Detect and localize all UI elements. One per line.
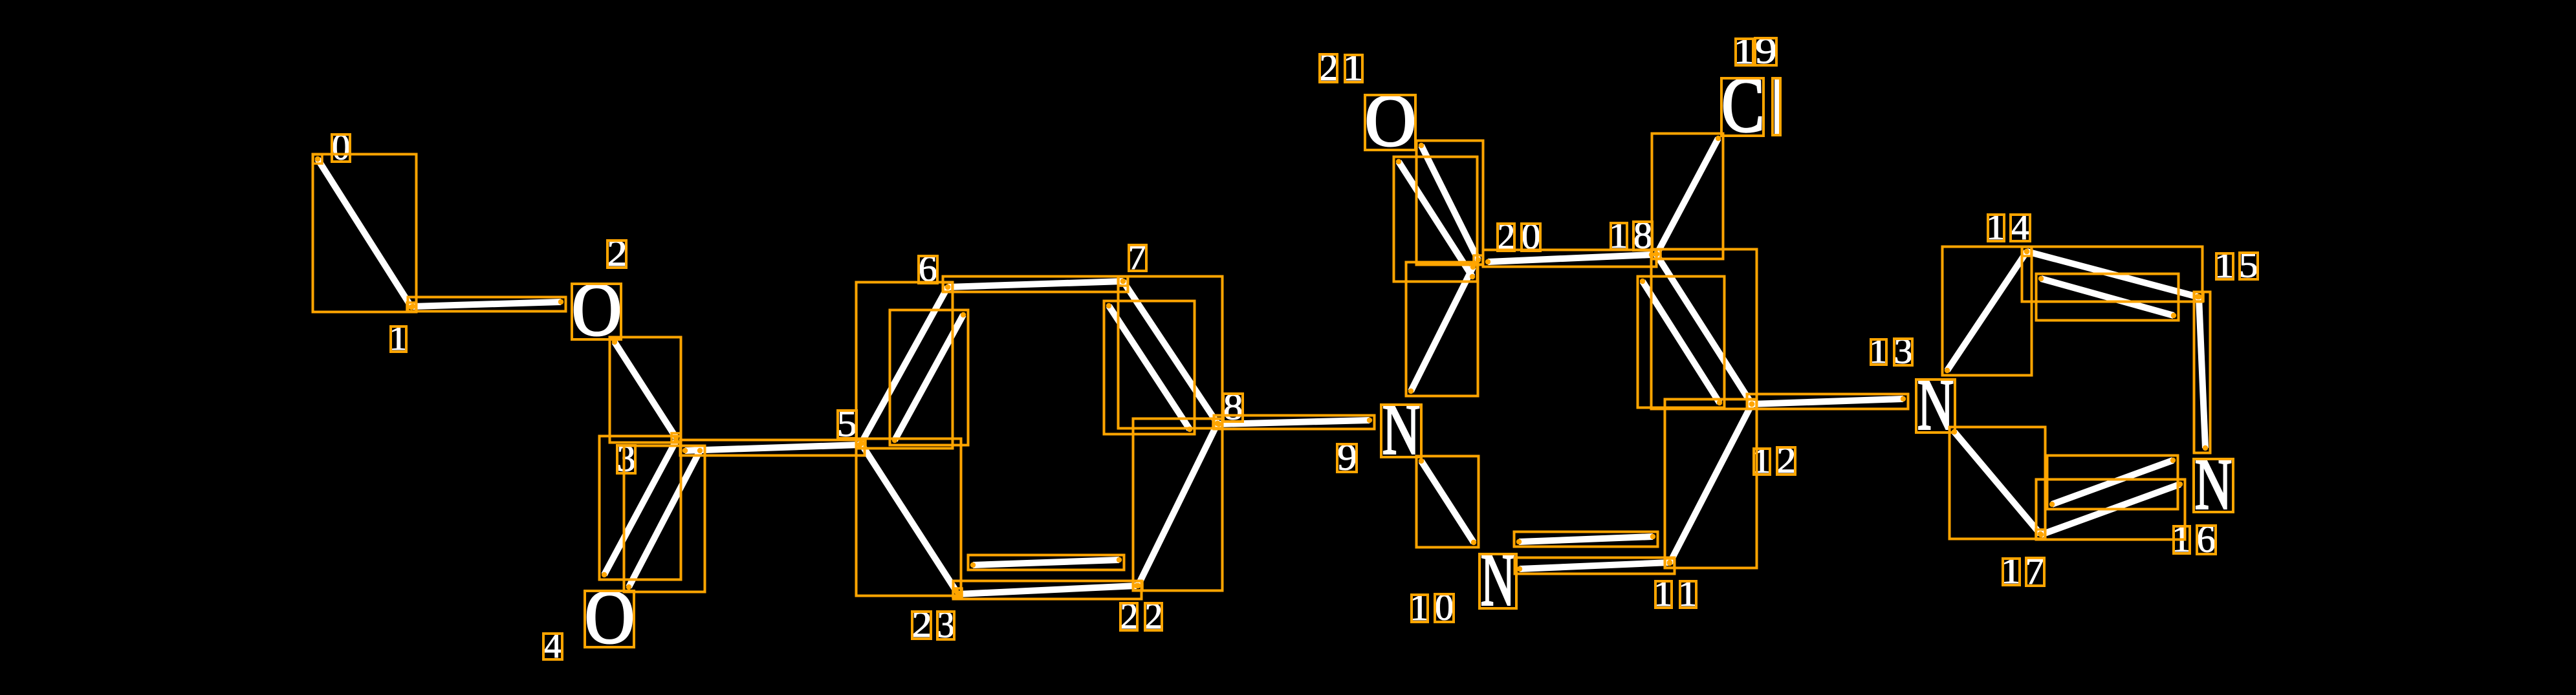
box label 4 bbox=[543, 634, 562, 659]
box bond 12-18 inner bbox=[1638, 277, 1725, 408]
box bond 13-14 bbox=[1943, 247, 2032, 376]
node atom 18 bbox=[1652, 250, 1661, 259]
box label 1 bbox=[1871, 339, 1886, 365]
wire bond 5-6 inner bbox=[895, 315, 963, 440]
wire bond 12-18 bbox=[1656, 254, 1752, 404]
box label 3 bbox=[937, 612, 954, 639]
box bond 12-13 bbox=[1747, 394, 1908, 409]
wire bond 15-16 bbox=[2199, 297, 2205, 448]
wire bond 6-7 bbox=[948, 281, 1123, 287]
box bond 3-4 line b bbox=[624, 446, 705, 592]
node atom 7 bbox=[1119, 277, 1128, 286]
box bond 13-17 bbox=[1950, 427, 2046, 539]
box label 0 bbox=[1435, 594, 1454, 622]
box bond 3-5 bbox=[681, 440, 865, 456]
wire bond 5-23 bbox=[861, 444, 956, 591]
box bond 1-2 bbox=[408, 297, 566, 312]
wire bond 8-9 bbox=[1219, 420, 1370, 424]
box bond 8-22 bbox=[1133, 419, 1223, 591]
wire bond 5-6 bbox=[861, 287, 948, 444]
box bond 22-23 inner bbox=[968, 555, 1124, 570]
wire bond 16-17 inner bbox=[2052, 460, 2173, 504]
box bond 6-7 bbox=[943, 277, 1128, 292]
box bond 10-11 bbox=[1515, 558, 1675, 574]
box bond 7-8 inner bbox=[1104, 301, 1195, 434]
wire bond 12-18 inner bbox=[1643, 281, 1719, 403]
box atom 16 bbox=[2194, 459, 2233, 512]
node atom 8 bbox=[1213, 419, 1222, 428]
box bond 10-11 inner bbox=[1514, 532, 1658, 547]
box bond 20-21 line a bbox=[1417, 141, 1483, 265]
wire bond 10-11 inner bbox=[1519, 537, 1653, 542]
box label 2 bbox=[912, 612, 931, 639]
box label 6 bbox=[2197, 526, 2216, 554]
wire bond 16-17 bbox=[2041, 484, 2180, 535]
box bond 9-20 bbox=[1406, 262, 1478, 396]
box label 2 bbox=[1498, 224, 1514, 251]
box label 8 bbox=[1223, 394, 1243, 422]
box label 1 bbox=[1655, 581, 1672, 608]
node atom 12 bbox=[1747, 400, 1756, 409]
wire bond 14-15 bbox=[2027, 251, 2198, 297]
box bond 15-16 bbox=[2194, 292, 2210, 453]
box bond 16-17 inner bbox=[2047, 456, 2178, 509]
box label 2 bbox=[1145, 603, 1162, 630]
box bond 3-4 line a bbox=[600, 436, 681, 580]
box bond 22-23 bbox=[954, 581, 1142, 599]
wire bond 1-2 bbox=[413, 302, 561, 306]
box label 3 bbox=[1894, 339, 1912, 365]
box bond 0-1 bbox=[313, 155, 417, 312]
node atom 1 bbox=[407, 303, 416, 312]
box label 8 bbox=[1633, 222, 1652, 250]
wire bond 14-15 inner bbox=[2041, 279, 2174, 315]
box bond 18-20 bbox=[1483, 250, 1657, 267]
wire bond 9-20 bbox=[1411, 267, 1473, 391]
node atom 3 bbox=[671, 433, 681, 442]
box label 4 bbox=[2011, 215, 2030, 241]
wire bond 10-11 bbox=[1520, 562, 1670, 569]
box atom 19 part bbox=[1773, 78, 1780, 135]
box label 7 bbox=[2026, 558, 2044, 586]
box label 2 bbox=[607, 241, 626, 268]
box label 1 bbox=[1988, 215, 2004, 241]
box label 1 bbox=[1345, 55, 1362, 82]
box bond 5-23 bbox=[857, 439, 961, 596]
box label 3 bbox=[617, 445, 635, 473]
box bond 7-8 bbox=[1119, 277, 1223, 429]
box atom 10 bbox=[1479, 554, 1516, 608]
box label 5 bbox=[838, 411, 857, 438]
wire bond 0-1 bbox=[318, 159, 411, 307]
node atom 11 bbox=[1665, 559, 1674, 568]
node atom 17 bbox=[2036, 529, 2045, 539]
box bond 8-9 bbox=[1214, 416, 1375, 429]
wire bond 13-17 bbox=[1954, 432, 2040, 534]
wire bond 20-21 line a bbox=[1421, 145, 1478, 260]
wire bond 22-23 inner bbox=[973, 560, 1119, 565]
box label 7 bbox=[1129, 245, 1146, 271]
box label 1 bbox=[1680, 581, 1696, 608]
box bond 5-6 bbox=[857, 283, 953, 449]
box label 1 bbox=[1736, 39, 1753, 65]
box bond 2-3 bbox=[610, 337, 681, 443]
box label 0 bbox=[332, 134, 350, 162]
node atom 14 bbox=[2022, 247, 2031, 256]
wire bond 7-8 inner bbox=[1109, 306, 1190, 429]
box label 2 bbox=[1120, 603, 1137, 630]
node atom 6 bbox=[943, 283, 952, 292]
wire bond 2-3 bbox=[615, 342, 676, 438]
box bond 14-15 inner bbox=[2036, 274, 2179, 321]
node atom 23 bbox=[953, 588, 962, 597]
box bond 18-19 bbox=[1652, 134, 1723, 259]
wire bond 9-10 bbox=[1421, 461, 1474, 542]
wire bond 20-21 line b bbox=[1399, 162, 1472, 277]
box bond 16-17 bbox=[2036, 480, 2185, 540]
box bond 11-12 bbox=[1665, 400, 1757, 568]
wire bond 13-14 bbox=[1947, 251, 2027, 370]
box label 1 bbox=[2174, 526, 2190, 553]
box label 1 bbox=[1412, 595, 1428, 622]
box label 0 bbox=[1522, 224, 1540, 251]
box label 1 bbox=[391, 326, 406, 352]
wire bond 3-4 line b bbox=[629, 451, 700, 587]
box label 6 bbox=[919, 256, 937, 283]
wire bond 7-8 bbox=[1123, 281, 1217, 423]
box label 2 bbox=[1777, 447, 1795, 475]
node atom 5 bbox=[857, 439, 866, 448]
box label 9 bbox=[1337, 444, 1357, 472]
box label 1 bbox=[1611, 223, 1627, 250]
box label 9 bbox=[1755, 38, 1776, 65]
box bond 20-21 line b bbox=[1394, 157, 1478, 282]
box atom 21 bbox=[1365, 95, 1415, 150]
wire bond 18-19 bbox=[1657, 138, 1718, 254]
wire bond 3-4 line a bbox=[604, 441, 676, 575]
box bond 9-10 bbox=[1417, 456, 1479, 548]
box atom 13 bbox=[1916, 380, 1955, 433]
box atom 2 bbox=[572, 284, 621, 339]
box bond 12-18 bbox=[1652, 250, 1757, 409]
wire bond 18-20 bbox=[1488, 255, 1652, 262]
wire bond 8-22 bbox=[1138, 423, 1217, 586]
node atom 15 bbox=[2194, 292, 2203, 301]
node atom 22 bbox=[1133, 581, 1142, 590]
wire bond 22-23 bbox=[958, 586, 1137, 594]
wire bond 11-12 bbox=[1670, 404, 1752, 563]
wire bond 3-5 bbox=[685, 445, 860, 451]
box label 1 bbox=[2003, 559, 2020, 585]
wire bond 12-13 bbox=[1752, 399, 1903, 404]
box label 1 bbox=[1754, 449, 1770, 475]
box atom 19 part bbox=[1721, 78, 1763, 136]
box atom 4 bbox=[585, 591, 634, 647]
box label 5 bbox=[2240, 253, 2258, 279]
node atom 0 bbox=[313, 155, 322, 164]
box bond 14-15 bbox=[2022, 247, 2203, 302]
box label 2 bbox=[1320, 54, 1337, 82]
box label 1 bbox=[2216, 253, 2233, 279]
box bond 5-6 inner bbox=[890, 310, 968, 445]
node atom 20 bbox=[1474, 255, 1483, 264]
box atom 9 bbox=[1381, 405, 1421, 457]
